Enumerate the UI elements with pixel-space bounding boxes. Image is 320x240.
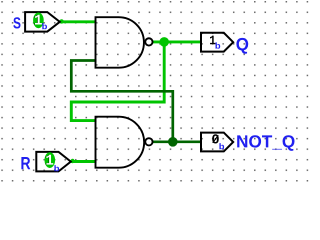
label NOT_Q <box>237 135 294 151</box>
NAND gate U2 body <box>96 117 145 168</box>
output pin NOT_Q value text (0b slashed zero) <box>212 134 224 149</box>
wire U1 output to Q (high) <box>152 40 201 43</box>
NAND gate U2 output bubble <box>145 138 152 145</box>
NAND gate U1 output bubble <box>145 38 152 45</box>
output pin NOT_Q body <box>201 133 233 152</box>
wire R to U2 bottom input (high) <box>70 159 96 163</box>
label R <box>21 157 30 169</box>
label S <box>13 17 20 28</box>
label Q <box>236 38 248 54</box>
output pin Q value text (1b) <box>210 36 220 49</box>
wire S to U1 top input (high) <box>59 19 96 23</box>
input pin S body <box>25 12 60 32</box>
NAND gate U1 body <box>96 17 144 67</box>
input pin S value oval (1) <box>33 12 47 29</box>
wire Q feedback to U2 top input (high) <box>71 42 164 121</box>
wire U2 output to NOT_Q (low) <box>152 140 201 143</box>
input pin R body <box>36 152 71 172</box>
junction node Q <box>159 37 169 47</box>
input pin R value oval (1) <box>45 152 60 171</box>
wire NOT_Q feedback to U1 bottom input (low) <box>71 61 173 142</box>
output pin Q body <box>201 33 233 52</box>
junction node NOT_Q <box>168 137 178 147</box>
